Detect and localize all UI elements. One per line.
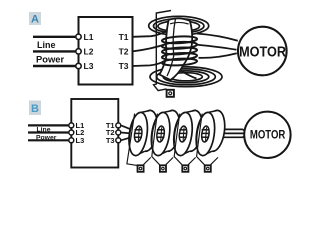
svg-text:T3: T3: [119, 61, 129, 71]
wire line input L1 (B): [28, 124, 71, 126]
toroid core T4B hole: [201, 126, 210, 143]
terminal L3 (A): [76, 63, 81, 68]
label B badge: [29, 101, 41, 116]
wire line input L3 (A): [33, 65, 78, 67]
choke core top rim (A): [149, 16, 209, 35]
wire line input L1 (A): [33, 36, 78, 38]
svg-text:L3: L3: [76, 136, 85, 145]
toroid core T4B back rim: [203, 109, 227, 152]
terminal box (B): [71, 99, 118, 168]
choke core vertical band (A): [160, 18, 193, 80]
svg-text:L1: L1: [84, 32, 94, 42]
strap seen through T2B hole: [161, 127, 162, 140]
motor (B): [244, 112, 290, 158]
mounting strap T4B: [197, 114, 218, 166]
svg-text:Line: Line: [37, 126, 51, 133]
terminal T1 (B): [116, 123, 121, 128]
toroid core T2B front face: [149, 111, 172, 157]
svg-text:Power: Power: [36, 135, 57, 142]
toroid core T1B front face: [126, 111, 149, 157]
clamp square T2B: [160, 165, 166, 172]
terminal T3 (B): [116, 138, 121, 143]
mounting strap T2B: [152, 114, 173, 166]
mounting strap (A): [154, 11, 172, 91]
wire choke to motor 3 (A): [199, 53, 237, 58]
wire turn across bottom rim (A): [167, 60, 197, 79]
svg-text:A: A: [31, 14, 39, 26]
wire T1 to choke (A): [133, 31, 168, 37]
wires through T4B hole: [202, 130, 209, 137]
choke core bottom rim (A): [150, 67, 222, 87]
terminal L2 (B): [69, 130, 74, 135]
toroid core T3B body band: [180, 110, 196, 155]
wires through T3B hole: [179, 130, 186, 137]
mounting strap T1B: [127, 114, 151, 166]
svg-text:T1: T1: [119, 32, 129, 42]
wire T3 through chokes to motor (B): [121, 136, 246, 141]
svg-text:Line: Line: [37, 40, 56, 50]
svg-text:B: B: [31, 103, 39, 115]
wire T1 through chokes to motor (B): [121, 125, 246, 131]
strap seen through T3B hole: [183, 127, 184, 140]
coil winding turns (A): [162, 36, 197, 44]
strap seen through T1B hole: [138, 127, 139, 140]
toroid core T3B back rim: [180, 109, 204, 152]
clamp square T3B: [182, 165, 188, 172]
toroid core T1B hole: [134, 126, 143, 143]
svg-text:T2: T2: [119, 47, 129, 57]
svg-text:MOTOR: MOTOR: [250, 128, 286, 142]
svg-text:T3: T3: [106, 136, 115, 145]
terminal L3 (B): [69, 138, 74, 143]
wires through T1B hole: [135, 130, 142, 137]
motor (A): [238, 27, 287, 76]
terminal L2 (A): [76, 49, 81, 54]
toroid core T2B body band: [158, 110, 174, 155]
clamp square T1B: [138, 165, 144, 172]
svg-text:L3: L3: [84, 61, 94, 71]
wire line input L2 (B): [28, 131, 71, 133]
toroid core T2B back rim: [158, 109, 182, 152]
terminal L1 (B): [69, 123, 74, 128]
clamp square T4B: [205, 165, 211, 172]
toroid core T4B body band: [202, 110, 218, 155]
wire T2 to choke (A): [133, 44, 169, 52]
clamp square (A): [167, 90, 174, 97]
wire T2 through chokes to motor (B): [121, 133, 245, 134]
wire line input L2 (A): [33, 50, 78, 52]
wire choke to motor 1 (A): [197, 34, 238, 41]
wires through T2B hole: [157, 130, 164, 137]
toroid core T3B hole: [178, 126, 187, 143]
toroid core T4B front face: [194, 111, 217, 157]
wire choke to motor 2 (A): [196, 45, 237, 50]
wire line input L3 (B): [28, 139, 71, 141]
terminal box (A): [79, 17, 133, 85]
toroid core T1B body band: [135, 110, 151, 155]
toroid core T1B back rim: [136, 109, 160, 152]
mounting strap T3B: [174, 114, 195, 166]
toroid core T2B hole: [156, 126, 165, 143]
svg-text:L2: L2: [84, 47, 94, 57]
toroid core T3B front face: [171, 111, 194, 157]
strap seen through T4B hole: [206, 127, 207, 140]
wire T3 to choke (A): [133, 60, 168, 66]
terminal T2 (B): [116, 130, 121, 135]
terminal L1 (A): [76, 34, 81, 39]
svg-text:MOTOR: MOTOR: [239, 44, 287, 60]
label A badge: [29, 12, 41, 25]
svg-text:Power: Power: [36, 53, 64, 64]
